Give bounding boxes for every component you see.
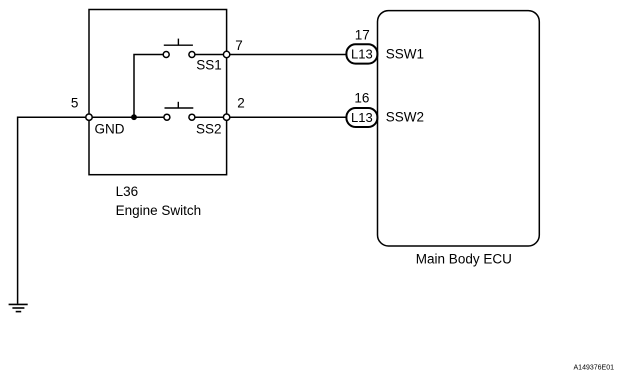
- svg-text:L36: L36: [116, 184, 139, 199]
- svg-text:A149376E01: A149376E01: [574, 364, 615, 371]
- pin label 2: [237, 96, 245, 111]
- svg-text:SS2: SS2: [196, 122, 222, 137]
- pin 2 terminal circle: [223, 114, 229, 120]
- Main Body ECU box: [378, 11, 540, 246]
- wire GND pin 5 to SS2 left contact: [92, 116, 164, 118]
- label SS2: [196, 122, 222, 137]
- connector L13 pin 16 (oval): [346, 108, 377, 127]
- label L36: [116, 184, 139, 199]
- figure number A149376E01: [574, 364, 615, 371]
- switch SS1 (momentary pushbutton): [163, 39, 195, 58]
- svg-text:7: 7: [235, 38, 243, 53]
- engine switch box L36: [89, 10, 227, 175]
- wire pin 2 to connector L13: [230, 116, 347, 118]
- pin label 17: [355, 28, 370, 43]
- svg-text:L13: L13: [351, 47, 373, 62]
- ground symbol: [9, 304, 28, 311]
- svg-text:2: 2: [237, 96, 245, 111]
- svg-text:Engine Switch: Engine Switch: [116, 203, 202, 218]
- label SS1: [196, 58, 222, 73]
- label Engine Switch: [116, 203, 202, 218]
- wire SS1 right contact to pin 7: [195, 54, 224, 56]
- pin 5 terminal circle: [86, 114, 92, 120]
- label Main Body ECU: [416, 252, 512, 267]
- connector L13 pin 17 (oval): [346, 44, 377, 63]
- pin label 7: [235, 38, 243, 53]
- wire pin 5 left and down to ground: [18, 117, 86, 304]
- svg-text:L13: L13: [351, 110, 373, 125]
- pin label 16: [354, 91, 369, 106]
- svg-text:17: 17: [355, 28, 370, 43]
- wire pin 7 to connector L13: [230, 54, 347, 56]
- label GND: [95, 122, 125, 137]
- wire branch from GND node up to SS1 left contact: [134, 55, 163, 118]
- node GND junction dot: [131, 114, 137, 120]
- svg-text:GND: GND: [95, 122, 125, 137]
- svg-text:SS1: SS1: [196, 58, 222, 73]
- terminal label SSW2: [386, 109, 424, 124]
- pin 7 terminal circle: [223, 51, 229, 57]
- svg-text:Main Body ECU: Main Body ECU: [416, 252, 512, 267]
- switch SS2 (momentary pushbutton): [164, 102, 195, 120]
- wire SS2 right contact to pin 2: [195, 116, 224, 118]
- svg-text:SSW1: SSW1: [386, 46, 424, 61]
- svg-text:SSW2: SSW2: [386, 109, 424, 124]
- terminal label SSW1: [386, 46, 424, 61]
- pin label 5: [71, 96, 79, 111]
- svg-text:5: 5: [71, 96, 79, 111]
- svg-text:16: 16: [354, 91, 369, 106]
